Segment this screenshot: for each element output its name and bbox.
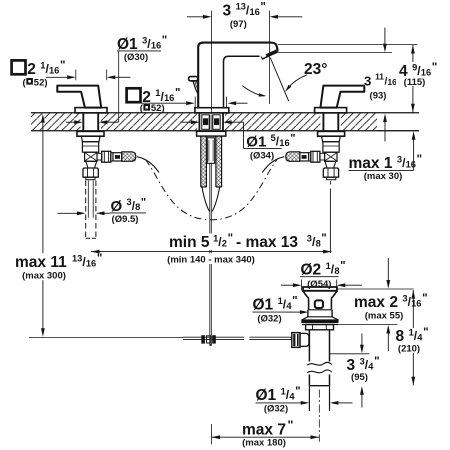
hose routing curve (dash-dot) <box>146 160 278 220</box>
tube break symbol <box>307 362 332 372</box>
drain tailpipe <box>309 386 329 411</box>
svg-text:": " <box>260 1 265 13</box>
svg-text:(min 140 - max 340): (min 140 - max 340) <box>167 254 255 265</box>
svg-text:min 5: min 5 <box>169 234 210 251</box>
left valve backnut <box>77 131 104 136</box>
label 23 degrees <box>304 61 327 78</box>
svg-text:": " <box>432 62 437 74</box>
svg-text:": " <box>422 293 427 305</box>
svg-text:": " <box>321 233 326 245</box>
label square 52 spout base <box>127 88 248 115</box>
dim max300 height below counter <box>12 114 102 337</box>
faucet backnut below counter <box>197 131 226 136</box>
23deg spray line <box>270 58 289 102</box>
svg-text:max 7: max 7 <box>242 422 286 439</box>
svg-text:(Ø32): (Ø32) <box>264 403 288 414</box>
svg-text:Ø1: Ø1 <box>253 297 274 314</box>
label Ø54 drain flange <box>281 261 362 291</box>
svg-text:": " <box>60 60 65 72</box>
aerator axis extension line <box>268 11 270 105</box>
svg-text:8: 8 <box>316 238 321 248</box>
svg-text:max 11: max 11 <box>15 254 67 271</box>
dim 95 tailpipe length <box>330 334 380 408</box>
dim min140-max340 handle spacing <box>91 233 332 265</box>
svg-text:16: 16 <box>250 7 260 17</box>
left valve body <box>81 136 100 161</box>
23deg leader arrow <box>285 75 307 92</box>
label Ø30 left valve shank <box>66 35 167 124</box>
label 93 handle height <box>278 28 403 142</box>
svg-text:Ø: Ø <box>111 198 123 215</box>
dim max55 basin thickness <box>337 258 428 351</box>
dim 210 drain height <box>394 290 429 385</box>
svg-text:": " <box>97 253 102 265</box>
label Ø32 drain neck <box>253 296 309 325</box>
svg-text:13: 13 <box>72 253 82 263</box>
drain pop-up cap (Ø54) <box>303 287 337 298</box>
svg-text:(Ø30): (Ø30) <box>124 52 148 63</box>
faucet aerator tip (23deg outlet) <box>261 51 277 59</box>
svg-text:11: 11 <box>375 72 384 82</box>
svg-text:2: 2 <box>27 61 36 78</box>
label Ø9.5 supply tube <box>58 197 147 226</box>
svg-text:8: 8 <box>135 202 140 212</box>
left valve outlet port <box>97 151 122 162</box>
svg-text:(210): (210) <box>398 343 420 354</box>
svg-text:2: 2 <box>222 238 227 248</box>
faucet inner supply tube <box>207 138 214 164</box>
svg-text:Ø2: Ø2 <box>301 262 322 279</box>
svg-text:(Ø54): (Ø54) <box>307 279 331 290</box>
label Ø34 faucet shank <box>181 120 296 161</box>
svg-text:3: 3 <box>223 3 232 20</box>
faucet spout body <box>198 43 277 108</box>
dim max180 faucet to drain <box>211 418 319 449</box>
svg-text:(max 300): (max 300) <box>22 270 66 281</box>
faucet mounting shank in countertop <box>199 113 223 131</box>
svg-text:(Ø34): (Ø34) <box>250 150 274 161</box>
svg-text:16: 16 <box>279 138 289 148</box>
svg-text:": " <box>340 261 345 273</box>
svg-text:(max 55): (max 55) <box>365 310 404 321</box>
svg-text:16: 16 <box>151 40 161 50</box>
svg-text:(97): (97) <box>230 19 247 30</box>
svg-text:(max 180): (max 180) <box>242 438 286 449</box>
svg-text:max 2: max 2 <box>354 294 398 311</box>
svg-text:": " <box>175 88 180 100</box>
faucet base flange <box>195 108 229 113</box>
label square 52 left handle <box>12 60 131 89</box>
svg-text:": " <box>290 133 295 145</box>
faucet centre extension line <box>211 11 213 113</box>
drain axis centreline <box>318 390 320 442</box>
svg-text:16: 16 <box>411 298 421 308</box>
drain locknut <box>306 325 334 330</box>
svg-text:16: 16 <box>406 159 416 169</box>
pop-up lift rod knob behind spout <box>189 77 198 94</box>
svg-text:52): 52) <box>151 103 165 114</box>
svg-text:(max 30): (max 30) <box>364 171 403 182</box>
svg-text:16: 16 <box>164 93 174 103</box>
left handle lever <box>57 86 101 108</box>
svg-text:16: 16 <box>49 65 59 75</box>
svg-text:Ø1: Ø1 <box>246 134 266 151</box>
svg-text:(93): (93) <box>370 91 387 102</box>
svg-text:52): 52) <box>34 78 48 89</box>
svg-text:(95): (95) <box>351 372 368 383</box>
svg-text:": " <box>141 197 146 209</box>
left flexible hose end (knurled) <box>122 152 136 162</box>
svg-text:(Ø32): (Ø32) <box>257 313 281 324</box>
svg-text:": " <box>374 356 379 368</box>
drain upper ring <box>308 310 332 317</box>
svg-text:13: 13 <box>236 2 246 12</box>
svg-text:": " <box>417 154 422 166</box>
svg-text:": " <box>295 386 300 398</box>
pop-up lift rod <box>210 163 212 345</box>
label Ø32 tailpipe <box>256 386 353 414</box>
svg-text:": " <box>292 296 297 308</box>
dim 115 spout height <box>278 45 437 113</box>
right valve axis line <box>329 181 331 253</box>
svg-text:max 1: max 1 <box>349 155 393 172</box>
dim max30 counter thickness <box>349 131 423 182</box>
drain flange (seat) <box>301 317 338 325</box>
supply hoses converging below shank <box>202 187 220 211</box>
horizontal pop-up rod <box>29 337 292 339</box>
drain tube lower part <box>309 375 329 386</box>
left handle escutcheon <box>75 108 107 113</box>
drain body tube <box>309 330 329 362</box>
svg-text:": " <box>288 418 294 432</box>
svg-text:": " <box>228 233 233 245</box>
countertop cross-section (hatched) <box>31 112 419 132</box>
left supply tube (dashed) <box>86 181 96 239</box>
left valve lower cone and nut <box>83 161 98 179</box>
svg-text:(115): (115) <box>404 77 426 88</box>
right hose curl (solid) <box>262 157 284 173</box>
rod-to-lift-rod coupling <box>201 335 216 346</box>
svg-text:": " <box>162 35 167 47</box>
dim 97 spout projection <box>187 1 302 29</box>
svg-text:": " <box>423 327 428 339</box>
left valve shank in countertop <box>83 113 98 131</box>
faucet threaded shank (knurled) <box>201 136 222 187</box>
svg-text:3: 3 <box>364 74 371 89</box>
23deg angle arc arrow <box>242 86 266 97</box>
left hose curl (solid) <box>137 157 159 173</box>
svg-text:8: 8 <box>334 266 339 276</box>
pop-up rod clamp at drain <box>292 333 309 348</box>
drain cap neck with square window <box>309 298 332 310</box>
svg-text:- max 13: - max 13 <box>236 234 298 251</box>
svg-text:16: 16 <box>388 77 398 87</box>
right handle and valve (mirrored) <box>286 86 365 180</box>
svg-text:16: 16 <box>86 258 96 268</box>
svg-text:Ø1: Ø1 <box>256 387 277 404</box>
svg-text:(Ø9.5): (Ø9.5) <box>112 214 139 225</box>
svg-text:16: 16 <box>421 67 431 77</box>
svg-text:23°: 23° <box>304 61 327 78</box>
